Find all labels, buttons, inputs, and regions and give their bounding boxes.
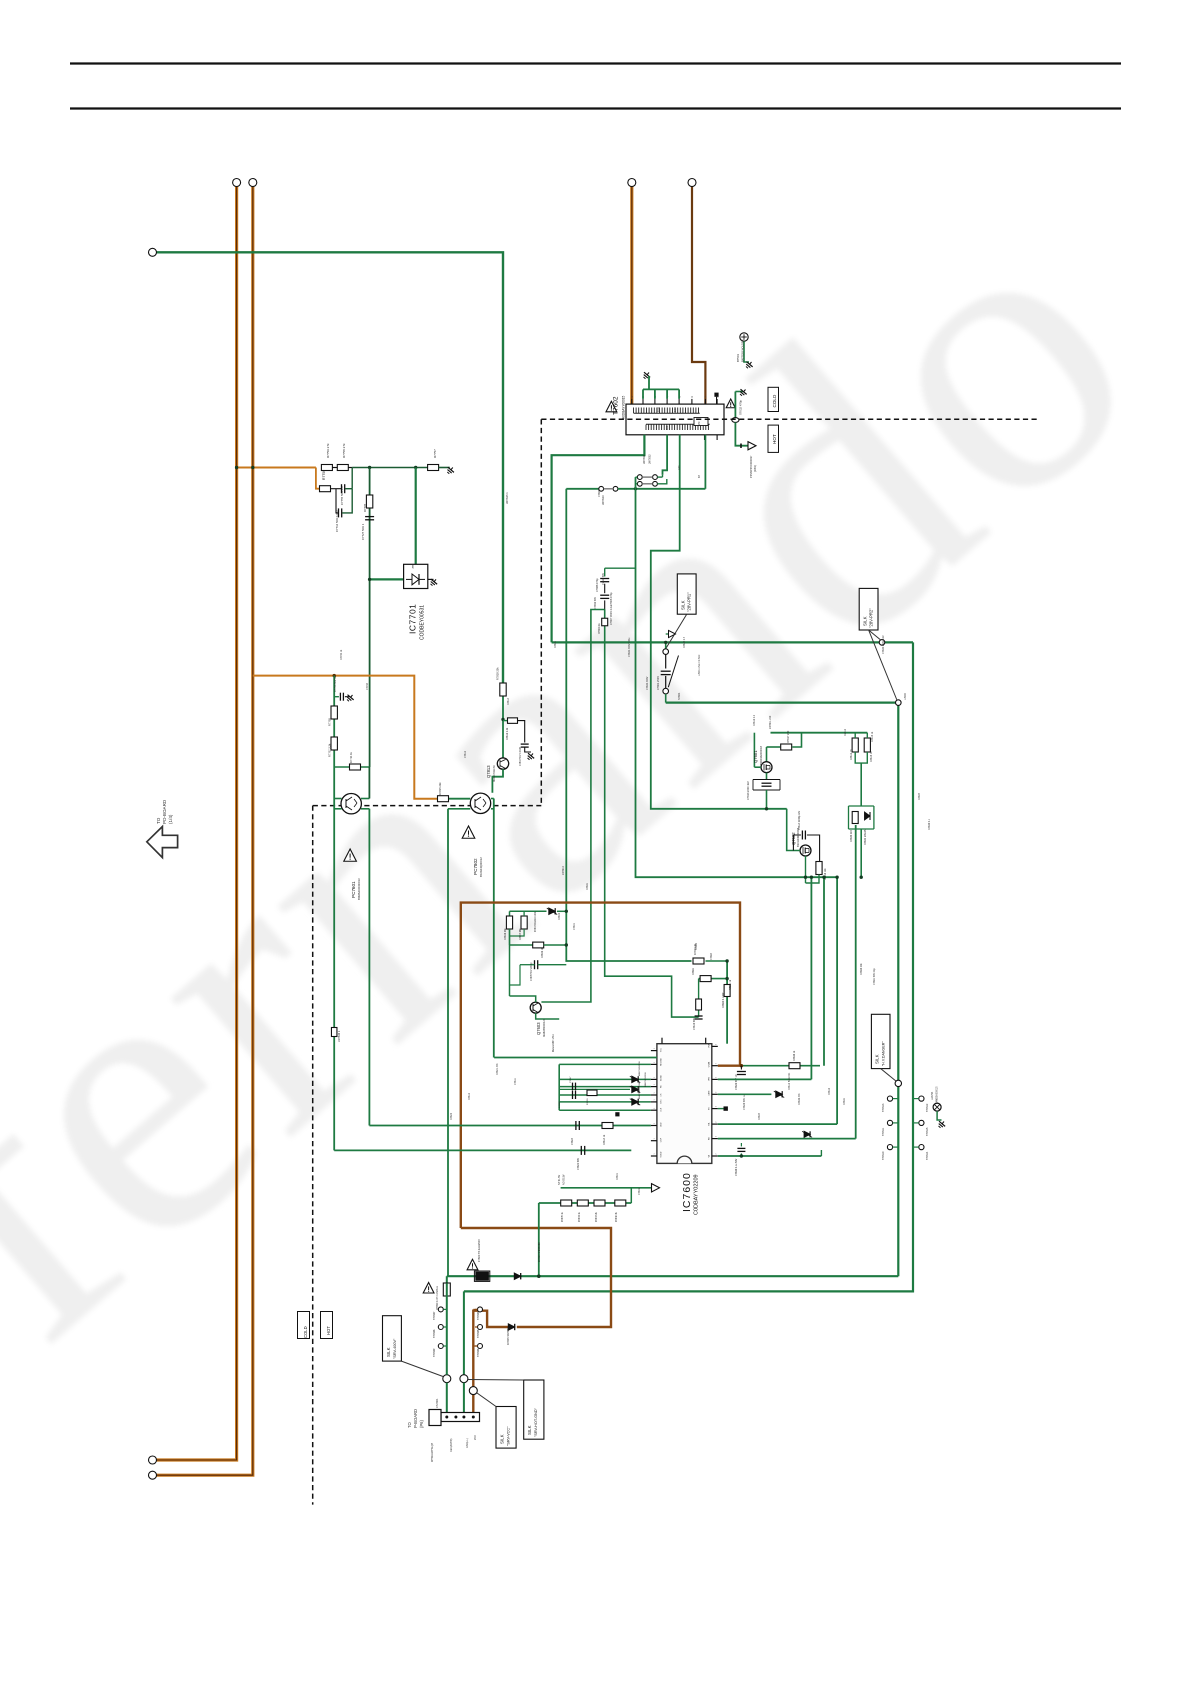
- svg-text:C7602 400V 100u: C7602 400V 100u: [628, 637, 631, 657]
- svg-text:B0ACDB000034: B0ACDB000034: [638, 1082, 641, 1099]
- svg-text:2: 2: [716, 1154, 718, 1155]
- svg-text:R7651: R7651: [554, 640, 557, 648]
- svg-text:"SRV-HOT-GND": "SRV-HOT-GND": [534, 1407, 538, 1437]
- svg-text:R7614 1k: R7614 1k: [603, 1134, 606, 1145]
- svg-text:B1DFRE000018: B1DFRE000018: [759, 746, 763, 765]
- svg-text:DTC: DTC: [661, 1099, 663, 1104]
- svg-text:R7621 47k: R7621 47k: [496, 1063, 499, 1075]
- svg-text:"SRV-400V": "SRV-400V": [393, 1338, 397, 1359]
- svg-text:IC7701: IC7701: [408, 604, 418, 634]
- svg-text:S7601: S7601: [677, 692, 681, 700]
- svg-text:TP7607: TP7607: [433, 1311, 436, 1320]
- svg-text:R7815 22k: R7815 22k: [438, 782, 442, 795]
- svg-text:CN7601: CN7601: [435, 1398, 439, 1408]
- svg-text:Meters MIP 1/8x1: Meters MIP 1/8x1: [552, 1033, 555, 1052]
- svg-text:C7816 50V 0.0047: C7816 50V 0.0047: [520, 746, 522, 766]
- svg-text:C7604 50V: C7604 50V: [602, 573, 605, 585]
- svg-text:GND(+L): GND(+L): [466, 1438, 469, 1448]
- svg-text:R7609 220: R7609 220: [850, 830, 853, 842]
- svg-text:C7812: C7812: [464, 750, 467, 758]
- svg-text:B0JA24Q00012: B0JA24Q00012: [479, 857, 483, 877]
- svg-text:LA7704: LA7704: [931, 1091, 934, 1100]
- svg-text:R7707 2.2k: R7707 2.2k: [328, 743, 332, 757]
- svg-text:R7635 1k: R7635 1k: [562, 1211, 564, 1222]
- svg-text:D7602 MA165: D7602 MA165: [864, 829, 867, 845]
- svg-text:C7628 50V 1u: C7628 50V 1u: [743, 1094, 746, 1110]
- svg-text:PD-BOARD: PD-BOARD: [162, 799, 167, 824]
- svg-text:R7638 1k: R7638 1k: [793, 1050, 796, 1061]
- svg-text:COLD: COLD: [772, 394, 777, 407]
- svg-text:JW7632: JW7632: [648, 454, 652, 464]
- svg-text:R7602 2.7: R7602 2.7: [683, 636, 686, 648]
- svg-text:MA8A560000JX: MA8A560000JX: [543, 1019, 546, 1037]
- svg-text:D7600 S4RBA60: D7600 S4RBA60: [537, 1242, 541, 1262]
- svg-text:SILK: SILK: [386, 1347, 391, 1357]
- svg-text:D7605 S1PB60: D7605 S1PB60: [506, 1327, 510, 1345]
- svg-text:C7624: C7624: [571, 1137, 574, 1145]
- svg-text:850: 850: [665, 425, 669, 430]
- svg-text:R7608 0.1: R7608 0.1: [928, 818, 931, 830]
- svg-text:C7704: C7704: [366, 682, 369, 690]
- svg-text:3PC: 3PC: [698, 421, 701, 426]
- svg-text:R7814: R7814: [507, 697, 510, 705]
- svg-text:C7681 50V 22p: C7681 50V 22p: [873, 968, 876, 985]
- svg-text:2: 2: [716, 1136, 718, 1137]
- svg-text:1: 1: [654, 1108, 656, 1109]
- svg-text:R7611 1k: R7611 1k: [729, 979, 732, 990]
- svg-text:(1/81): (1/81): [753, 465, 757, 472]
- svg-text:VCC: VCC: [661, 1047, 663, 1052]
- svg-text:R7647 68k: R7647 68k: [519, 928, 522, 940]
- svg-text:2: 2: [716, 1063, 718, 1064]
- svg-text:C7614 2200p 1kV: C7614 2200p 1kV: [798, 810, 801, 830]
- svg-text:16H: 16H: [673, 407, 677, 412]
- svg-text:R7607: R7607: [918, 792, 921, 800]
- svg-text:TP7614: TP7614: [926, 1151, 929, 1160]
- svg-text:C7727 50V 1: C7727 50V 1: [361, 523, 365, 540]
- svg-text:TP7605: TP7605: [477, 1329, 480, 1338]
- svg-text:OCP: OCP: [661, 1137, 663, 1142]
- svg-text:2: 2: [716, 1044, 718, 1045]
- svg-text:WTW1164TW-QH: WTW1164TW-QH: [431, 1443, 434, 1462]
- svg-text:R7646 1k: R7646 1k: [541, 947, 544, 958]
- svg-text:C7626 50V 10: C7626 50V 10: [735, 1074, 738, 1090]
- svg-text:R7756: R7756: [322, 470, 326, 480]
- svg-text:L7600: L7600: [904, 693, 907, 700]
- svg-text:2: 2: [716, 1077, 718, 1078]
- svg-text:TP7610: TP7610: [882, 1151, 885, 1160]
- svg-text:1: 1: [654, 1154, 656, 1155]
- svg-text:JW7611 220: JW7611 220: [769, 715, 772, 729]
- svg-text:C7606 470p: C7606 470p: [610, 592, 613, 606]
- svg-text:D7608: D7608: [559, 1101, 561, 1108]
- svg-text:"H.V.DANGER": "H.V.DANGER": [882, 1041, 886, 1066]
- svg-text:"SRV-VCC": "SRV-VCC": [507, 1426, 511, 1446]
- svg-text:C7613 2200 1kV: C7613 2200 1kV: [747, 781, 750, 800]
- svg-text:C7607 450V 2.2u: C7607 450V 2.2u: [610, 605, 613, 625]
- svg-text:TP7604: TP7604: [477, 1311, 480, 1320]
- svg-text:S7632 470p: S7632 470p: [739, 399, 743, 415]
- svg-text:TO: TO: [156, 817, 161, 824]
- svg-text:R7682: R7682: [695, 942, 698, 950]
- svg-text:1: 1: [654, 1048, 656, 1049]
- svg-text:D7610: D7610: [828, 1087, 831, 1095]
- svg-text:(P6): (P6): [419, 1419, 424, 1428]
- svg-text:R7631: R7631: [843, 1097, 846, 1105]
- svg-text:R7617 220: R7617 220: [787, 730, 790, 743]
- svg-text:R7629: R7629: [587, 1098, 589, 1105]
- svg-text:GND: GND: [661, 1122, 663, 1127]
- svg-text:VCC: VCC: [474, 1435, 477, 1440]
- svg-text:C7641: C7641: [573, 922, 576, 930]
- svg-text:2: 2: [716, 1092, 718, 1093]
- svg-text:CODBEY00531: CODBEY00531: [420, 605, 426, 640]
- svg-text:TO: TO: [407, 1422, 412, 1428]
- svg-text:R7681: R7681: [692, 967, 695, 975]
- svg-text:C7605 50V 2200p: C7605 50V 2200p: [531, 962, 533, 981]
- svg-text:2: 2: [716, 1106, 718, 1107]
- svg-text:10H: 10H: [656, 407, 660, 412]
- svg-text:GATE: GATE: [708, 1090, 711, 1096]
- svg-text:B7501: B7501: [736, 353, 740, 362]
- svg-text:C7622 50V: C7622 50V: [577, 1158, 580, 1170]
- svg-text:R7688 20k: R7688 20k: [860, 963, 863, 975]
- svg-text:TP7615: TP7615: [926, 1127, 929, 1136]
- svg-text:RAMDSA000015: RAMDSA000015: [936, 1086, 939, 1104]
- svg-text:1: 1: [654, 1062, 656, 1063]
- svg-text:D7613 B0ACDK: D7613 B0ACDK: [788, 1072, 791, 1090]
- svg-text:R7612 10: R7612 10: [850, 749, 853, 760]
- svg-text:R7637: R7637: [758, 1112, 761, 1120]
- svg-text:SILK: SILK: [681, 600, 686, 610]
- svg-text:R7623: R7623: [450, 1112, 453, 1120]
- svg-text:C7712 50V 0.022: C7712 50V 0.022: [335, 510, 339, 532]
- svg-text:C7693: C7693: [598, 489, 601, 497]
- svg-text:TP7606: TP7606: [477, 1348, 480, 1357]
- svg-text:1: 1: [654, 1123, 656, 1124]
- svg-text:D7618 DA2J10100L: D7618 DA2J10100L: [534, 911, 537, 932]
- svg-text:R7818 22k: R7818 22k: [496, 667, 500, 680]
- svg-text:PC7802: PC7802: [473, 858, 478, 875]
- svg-text:C7617: C7617: [570, 1076, 572, 1083]
- svg-text:8H: 8H: [698, 475, 701, 478]
- svg-text:JW7610: JW7610: [562, 866, 565, 875]
- svg-text:ABC: ABC: [412, 564, 415, 569]
- svg-text:TP7613: TP7613: [882, 1103, 885, 1112]
- svg-text:TP7608: TP7608: [433, 1329, 436, 1338]
- svg-text:C7666 470p: C7666 470p: [596, 578, 599, 592]
- svg-text:R7711 1k: R7711 1k: [349, 751, 353, 763]
- svg-text:R7634 1k: R7634 1k: [579, 1211, 581, 1222]
- svg-text:12H: 12H: [678, 465, 681, 470]
- svg-text:SILK: SILK: [500, 1434, 505, 1444]
- svg-text:R7757: R7757: [433, 449, 437, 458]
- svg-text:R7604 1k: R7604 1k: [598, 623, 601, 634]
- svg-text:JW7623: JW7623: [601, 495, 605, 505]
- svg-text:(1/4): (1/4): [168, 814, 173, 824]
- svg-text:C7600 250V 0.22: C7600 250V 0.22: [882, 635, 885, 654]
- svg-text:R7758 27k: R7758 27k: [342, 443, 346, 458]
- svg-text:TP7609: TP7609: [433, 1348, 436, 1357]
- svg-text:1: 1: [654, 1093, 656, 1094]
- svg-text:R7816 2.2k: R7816 2.2k: [506, 727, 509, 740]
- svg-text:TP7611: TP7611: [882, 1127, 885, 1136]
- svg-text:C7611: C7611: [514, 1077, 517, 1085]
- svg-text:MA3X704GTX: MA3X704GTX: [492, 765, 496, 782]
- svg-text:CLK: CLK: [661, 1107, 663, 1112]
- svg-text:2: 2: [716, 1122, 718, 1123]
- svg-text:BATTERYHOLDER: BATTERYHOLDER: [741, 339, 745, 362]
- svg-text:Q7603: Q7603: [536, 1022, 541, 1035]
- svg-text:A0DBAYY00015: A0DBAYY00015: [622, 395, 626, 419]
- svg-text:C7603 400V: C7603 400V: [646, 676, 649, 690]
- svg-text:Q7601: Q7601: [753, 750, 758, 763]
- svg-text:L7601 LINE FILTER: L7601 LINE FILTER: [698, 654, 701, 676]
- svg-text:1: 1: [654, 1084, 656, 1085]
- svg-text:VSA: VSA: [708, 1043, 711, 1048]
- svg-text:SILK: SILK: [875, 1054, 880, 1064]
- svg-text:R7648 33k: R7648 33k: [504, 928, 507, 940]
- svg-text:REF(ARTW): REF(ARTW): [450, 1438, 453, 1452]
- svg-text:R7640 3k: R7640 3k: [616, 1211, 618, 1222]
- svg-text:REGIND: REGIND: [661, 1058, 663, 1066]
- svg-text:C7684: C7684: [710, 952, 713, 960]
- svg-text:R7616 2.2: R7616 2.2: [753, 714, 756, 726]
- svg-text:R7702 1k: R7702 1k: [340, 649, 343, 660]
- svg-text:R7633 2k: R7633 2k: [596, 1211, 598, 1222]
- svg-text:"28V-PR2": "28V-PR2": [869, 608, 874, 628]
- svg-text:B0BC51R0009: B0BC51R0009: [639, 1061, 641, 1076]
- svg-text:"28V-PR1": "28V-PR1": [687, 592, 692, 612]
- svg-text:JW7619 1: JW7619 1: [338, 1030, 341, 1042]
- svg-text:SILK: SILK: [863, 616, 868, 626]
- svg-text:R7641: R7641: [616, 1172, 619, 1180]
- svg-text:P-BOARD: P-BOARD: [413, 1409, 418, 1428]
- svg-text:R7708: R7708: [328, 718, 332, 726]
- svg-text:1: 1: [654, 1077, 656, 1078]
- svg-text:F7600 T6.3AH250V: F7600 T6.3AH250V: [477, 1239, 481, 1262]
- svg-text:B1CHRD000034: B1CHRD000034: [796, 827, 800, 847]
- svg-text:T7602: T7602: [613, 396, 620, 415]
- svg-text:C7619 50V: C7619 50V: [693, 1018, 696, 1030]
- svg-text:Q7813: Q7813: [486, 765, 491, 778]
- svg-text:C7703 50V 1u: C7703 50V 1u: [334, 675, 337, 692]
- svg-text:NT 91.5V: NT 91.5V: [558, 1175, 561, 1185]
- svg-text:1: 1: [654, 1099, 656, 1100]
- svg-text:C0DBAYY02209: C0DBAYY02209: [694, 1174, 700, 1215]
- svg-text:PC7601: PC7601: [351, 881, 356, 898]
- svg-text:TP7612: TP7612: [926, 1103, 929, 1112]
- svg-text:C7656 50V: C7656 50V: [594, 597, 597, 609]
- svg-text:R7615 1k: R7615 1k: [871, 731, 874, 742]
- svg-text:JW7625 1: JW7625 1: [505, 492, 509, 504]
- svg-text:VFB: VFB: [709, 1076, 711, 1081]
- svg-text:Q7602: Q7602: [791, 832, 796, 845]
- svg-text:USAB: USAB: [708, 1061, 711, 1067]
- svg-text:R7612: R7612: [844, 728, 847, 736]
- svg-text:C7755 50V 0.1: C7755 50V 0.1: [340, 486, 344, 505]
- svg-text:SGND: SGND: [661, 1151, 663, 1157]
- svg-text:JW7631: JW7631: [642, 454, 646, 464]
- svg-text:PPM1PPC0000037: PPM1PPC0000037: [749, 455, 753, 478]
- svg-text:R7759 27k: R7759 27k: [326, 443, 330, 458]
- svg-text:IC7600: IC7600: [681, 1172, 693, 1212]
- svg-text:R7601: R7601: [586, 882, 589, 890]
- svg-text:D7612: D7612: [468, 1092, 471, 1100]
- svg-text:C7642: C7642: [638, 1187, 641, 1195]
- svg-text:HOT: HOT: [326, 1326, 331, 1335]
- svg-text:COLD: COLD: [303, 1326, 308, 1338]
- svg-text:R7643: R7643: [558, 912, 561, 920]
- svg-text:B0MA260000013: B0MA260000013: [357, 878, 361, 900]
- svg-text:C7608 0.1u 50V: C7608 0.1u 50V: [735, 1158, 738, 1176]
- svg-text:R7683 0.1/4W: R7683 0.1/4W: [722, 992, 725, 1008]
- svg-text:C7601 250V: C7601 250V: [657, 676, 660, 690]
- svg-text:B0BC51R0009: B0BC51R0009: [645, 1072, 647, 1087]
- svg-text:NO 92.5V: NO 92.5V: [563, 1174, 566, 1185]
- svg-text:1: 1: [654, 1138, 656, 1139]
- svg-text:R7690 0.47 FUSIBLE: R7690 0.47 FUSIBLE: [436, 1286, 439, 1310]
- svg-text:HOT: HOT: [772, 434, 777, 444]
- svg-text:R7615 10: R7615 10: [870, 751, 873, 762]
- svg-text:R7705: R7705: [363, 503, 367, 512]
- svg-text:BGND: BGND: [661, 1075, 663, 1081]
- svg-text:SILK: SILK: [527, 1425, 532, 1435]
- svg-text:R7636 47k: R7636 47k: [798, 1093, 801, 1105]
